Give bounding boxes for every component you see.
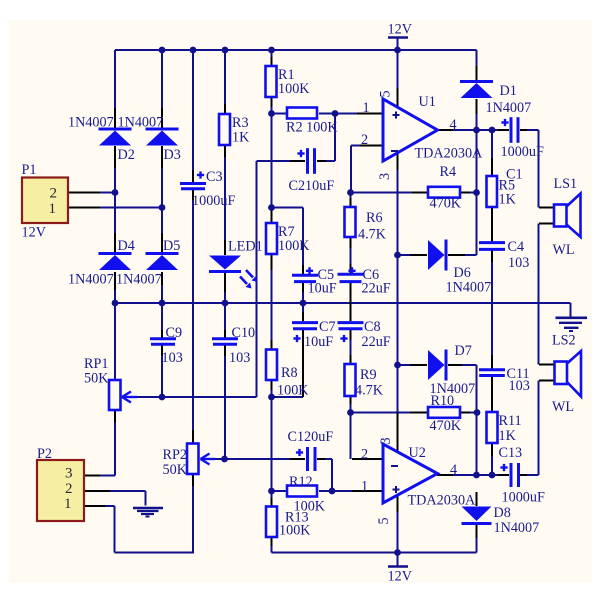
svg-text:LS2: LS2 [552, 333, 576, 349]
svg-text:22uF: 22uF [362, 281, 391, 297]
svg-text:1N4007: 1N4007 [494, 520, 540, 536]
svg-text:C9: C9 [166, 325, 183, 341]
svg-text:10uF: 10uF [308, 281, 337, 297]
svg-text:1000uF: 1000uF [502, 490, 545, 506]
svg-text:R12: R12 [289, 474, 313, 490]
svg-text:1N4007: 1N4007 [446, 280, 492, 296]
svg-text:1: 1 [64, 496, 72, 512]
svg-text:1000uF: 1000uF [192, 193, 235, 209]
svg-text:D5: D5 [163, 238, 180, 254]
svg-text:2: 2 [50, 186, 58, 202]
svg-text:C4: C4 [508, 239, 525, 255]
svg-text:1N4007: 1N4007 [430, 381, 476, 397]
svg-text:R11: R11 [499, 413, 522, 429]
svg-text:D8: D8 [494, 505, 511, 521]
svg-text:470K: 470K [430, 418, 462, 434]
svg-text:C7: C7 [319, 319, 336, 335]
svg-text:3: 3 [378, 437, 394, 444]
svg-text:WL: WL [553, 242, 575, 258]
svg-text:12V: 12V [388, 22, 413, 38]
svg-text:C3: C3 [206, 169, 223, 185]
svg-text:D3: D3 [164, 147, 181, 163]
svg-text:RP2: RP2 [163, 447, 187, 463]
svg-text:D1: D1 [500, 83, 517, 99]
svg-text:R6: R6 [366, 210, 383, 226]
svg-text:WL: WL [552, 399, 574, 415]
svg-text:P1: P1 [22, 162, 37, 178]
svg-text:100K: 100K [278, 81, 310, 97]
svg-text:R2 100K: R2 100K [286, 120, 338, 136]
svg-text:1N4007: 1N4007 [486, 100, 532, 116]
svg-text:1000uF: 1000uF [501, 144, 544, 160]
svg-text:1K: 1K [499, 192, 517, 208]
svg-text:103: 103 [508, 255, 529, 271]
svg-text:1: 1 [49, 201, 57, 217]
svg-text:12V: 12V [388, 569, 413, 585]
svg-text:5: 5 [378, 90, 394, 97]
svg-text:1N4007: 1N4007 [68, 272, 114, 288]
svg-text:P2: P2 [37, 446, 52, 462]
svg-text:1N4007: 1N4007 [118, 115, 164, 131]
svg-text:U1: U1 [419, 94, 436, 110]
svg-text:1N4007: 1N4007 [68, 115, 114, 131]
svg-text:12V: 12V [22, 225, 47, 241]
svg-text:100K: 100K [279, 523, 311, 539]
svg-text:10uF: 10uF [304, 334, 333, 350]
svg-text:TDA2030A: TDA2030A [415, 146, 484, 162]
svg-text:1K: 1K [232, 130, 250, 146]
svg-text:103: 103 [509, 378, 530, 394]
svg-text:3: 3 [65, 466, 73, 482]
svg-text:C8: C8 [364, 319, 381, 335]
svg-text:D4: D4 [118, 238, 135, 254]
svg-text:D2: D2 [118, 147, 135, 163]
svg-text:22uF: 22uF [362, 334, 391, 350]
svg-text:R8: R8 [281, 365, 298, 381]
svg-text:2: 2 [361, 447, 368, 463]
svg-text:1: 1 [361, 479, 368, 495]
svg-text:100K: 100K [278, 238, 310, 254]
svg-text:1: 1 [363, 100, 370, 116]
svg-text:4: 4 [450, 117, 457, 133]
svg-text:C13: C13 [499, 445, 523, 461]
svg-text:4.7K: 4.7K [358, 227, 387, 243]
svg-text:LS1: LS1 [554, 176, 578, 192]
svg-text:D7: D7 [455, 343, 472, 359]
svg-text:4: 4 [450, 462, 457, 478]
svg-text:LED1: LED1 [228, 239, 263, 255]
svg-text:C120uF: C120uF [288, 429, 334, 445]
svg-text:TDA2030A: TDA2030A [408, 493, 477, 509]
svg-text:50K: 50K [163, 462, 188, 478]
svg-text:C10: C10 [232, 325, 256, 341]
svg-text:470K: 470K [430, 196, 462, 212]
svg-text:4.7K: 4.7K [355, 383, 384, 399]
svg-text:1N4007: 1N4007 [116, 272, 162, 288]
svg-text:3: 3 [377, 173, 393, 180]
svg-text:100K: 100K [277, 383, 309, 399]
svg-text:R9: R9 [360, 367, 377, 383]
svg-text:R4: R4 [440, 164, 457, 180]
svg-text:103: 103 [229, 350, 250, 366]
svg-text:103: 103 [162, 350, 183, 366]
svg-text:C210uF: C210uF [289, 178, 335, 194]
svg-text:1K: 1K [499, 428, 517, 444]
svg-text:5: 5 [376, 517, 392, 524]
svg-text:50K: 50K [84, 371, 109, 387]
svg-text:2: 2 [65, 481, 73, 497]
svg-text:U2: U2 [409, 445, 426, 461]
svg-text:2: 2 [361, 132, 368, 148]
